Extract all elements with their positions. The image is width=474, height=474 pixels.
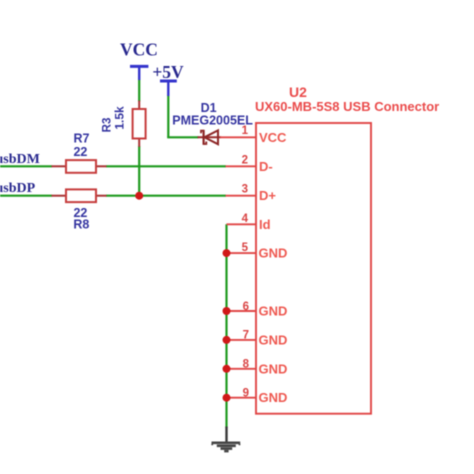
svg-text:5: 5 [242, 242, 249, 254]
svg-text:R8: R8 [73, 217, 89, 231]
svg-text:UX60-MB-5S8 USB Connector: UX60-MB-5S8 USB Connector [255, 99, 439, 114]
svg-text:22: 22 [73, 145, 87, 159]
svg-text:9: 9 [243, 388, 249, 400]
svg-text:GND: GND [259, 390, 288, 405]
junction dot pin 5 [223, 249, 231, 257]
wire usbDM net left segment [0, 165, 52, 167]
svg-text:7: 7 [243, 330, 249, 342]
pin 8 [227, 368, 257, 370]
svg-text:+5V: +5V [152, 62, 184, 82]
svg-text:R7: R7 [74, 131, 90, 145]
resistor R3 [133, 101, 146, 147]
svg-text:D-: D- [259, 159, 273, 174]
power port VCC [120, 40, 158, 81]
pin 3 [226, 195, 257, 197]
pin 7 [227, 339, 257, 341]
junction dot pin 7 [223, 336, 231, 344]
wire R3 bottom to usbDP [138, 146, 140, 196]
ground symbol [212, 427, 241, 452]
wire usbDP net left segment [0, 195, 52, 197]
diode D1 lead [198, 136, 222, 138]
wire usbDP R8 to pin3 [106, 195, 226, 197]
wire usbDM R7 to pin2 [106, 165, 226, 167]
svg-text:U2: U2 [289, 84, 307, 100]
svg-text:D+: D+ [259, 188, 276, 203]
svg-text:2: 2 [242, 154, 248, 166]
svg-text:usbDM: usbDM [0, 152, 40, 167]
junction dot at R3/usbDP [135, 192, 143, 200]
svg-text:1: 1 [242, 125, 249, 137]
diode D1 schottky symbol [201, 130, 218, 145]
pin 5 [227, 252, 257, 254]
wire +5V stem down [167, 95, 169, 137]
pin 1 [220, 136, 256, 138]
svg-text:6: 6 [243, 301, 249, 313]
junction dot pin 8 [223, 365, 231, 373]
resistor R7 [52, 160, 107, 173]
svg-text:Id: Id [259, 217, 271, 232]
svg-text:4: 4 [242, 213, 249, 225]
pin 9 [227, 397, 257, 399]
wire VCC stem to R3 [138, 80, 140, 102]
svg-text:1.5k: 1.5k [113, 106, 127, 130]
junction dot pin 6 [223, 307, 231, 315]
pin 6 [227, 310, 257, 312]
component U2 box [256, 123, 371, 414]
junction dot pin 9 [223, 394, 231, 402]
svg-text:GND: GND [259, 361, 288, 376]
svg-text:usbDP: usbDP [0, 181, 36, 196]
pin 2 [226, 165, 257, 167]
power port +5V [152, 62, 184, 96]
svg-text:3: 3 [242, 184, 248, 196]
wire GND vertical bus [225, 224, 227, 428]
svg-text:GND: GND [259, 332, 288, 347]
svg-text:VCC: VCC [120, 40, 158, 60]
svg-text:8: 8 [243, 359, 250, 371]
resistor R8 [52, 189, 107, 202]
pin 4 [227, 223, 257, 225]
svg-text:VCC: VCC [259, 130, 287, 145]
svg-text:GND: GND [259, 304, 288, 319]
wire +5V corner to diode [167, 136, 198, 138]
svg-text:GND: GND [259, 246, 288, 261]
